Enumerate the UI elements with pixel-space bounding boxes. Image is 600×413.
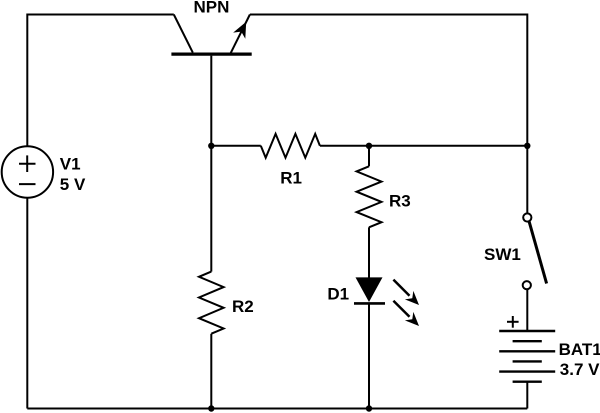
svg-text:R3: R3: [389, 192, 411, 211]
svg-text:BAT1: BAT1: [559, 340, 600, 359]
wire battery to bottom: [526, 382, 528, 409]
battery plus sign: [507, 316, 519, 328]
wire bottom: [27, 408, 527, 410]
transistor emitter arrowhead: [233, 19, 252, 39]
battery BAT1: [499, 331, 555, 382]
svg-text:5 V: 5 V: [60, 175, 86, 194]
resistor R3: [357, 166, 382, 227]
junction R2-bottom: [208, 405, 214, 411]
wire R2 to bottom: [210, 334, 212, 409]
svg-text:SW1: SW1: [484, 245, 521, 264]
wire R3 top lead: [368, 146, 370, 167]
wire R1 right to right rail: [320, 145, 527, 147]
svg-text:3.7 V: 3.7 V: [560, 360, 600, 379]
switch blade: [529, 222, 546, 284]
svg-text:NPN: NPN: [194, 0, 230, 17]
junction R1-R3: [366, 143, 372, 149]
resistor R1: [261, 134, 320, 158]
wire base vertical: [210, 56, 212, 272]
transistor Q NPN: [171, 15, 251, 55]
wire R3 to LED: [368, 227, 370, 277]
wire switch to battery: [526, 289, 528, 331]
junction LED-bottom: [366, 405, 372, 411]
junction base-R1: [208, 143, 214, 149]
LED D1: [354, 277, 385, 303]
svg-text:D1: D1: [327, 285, 349, 304]
wire LED to bottom: [368, 303, 370, 408]
wire top right: [250, 15, 527, 214]
switch SW1: [523, 213, 532, 289]
svg-text:R2: R2: [232, 297, 254, 316]
wire top left: [27, 15, 174, 147]
wire R1 left lead: [211, 145, 260, 147]
resistor R2: [199, 272, 224, 334]
svg-text:V1: V1: [60, 154, 81, 173]
LED arrow 2: [393, 301, 423, 331]
voltage source V1: [2, 146, 53, 197]
wire left rail lower: [26, 198, 28, 409]
svg-text:R1: R1: [280, 169, 302, 188]
LED arrow 1: [393, 280, 423, 310]
junction right rail: [524, 143, 530, 149]
